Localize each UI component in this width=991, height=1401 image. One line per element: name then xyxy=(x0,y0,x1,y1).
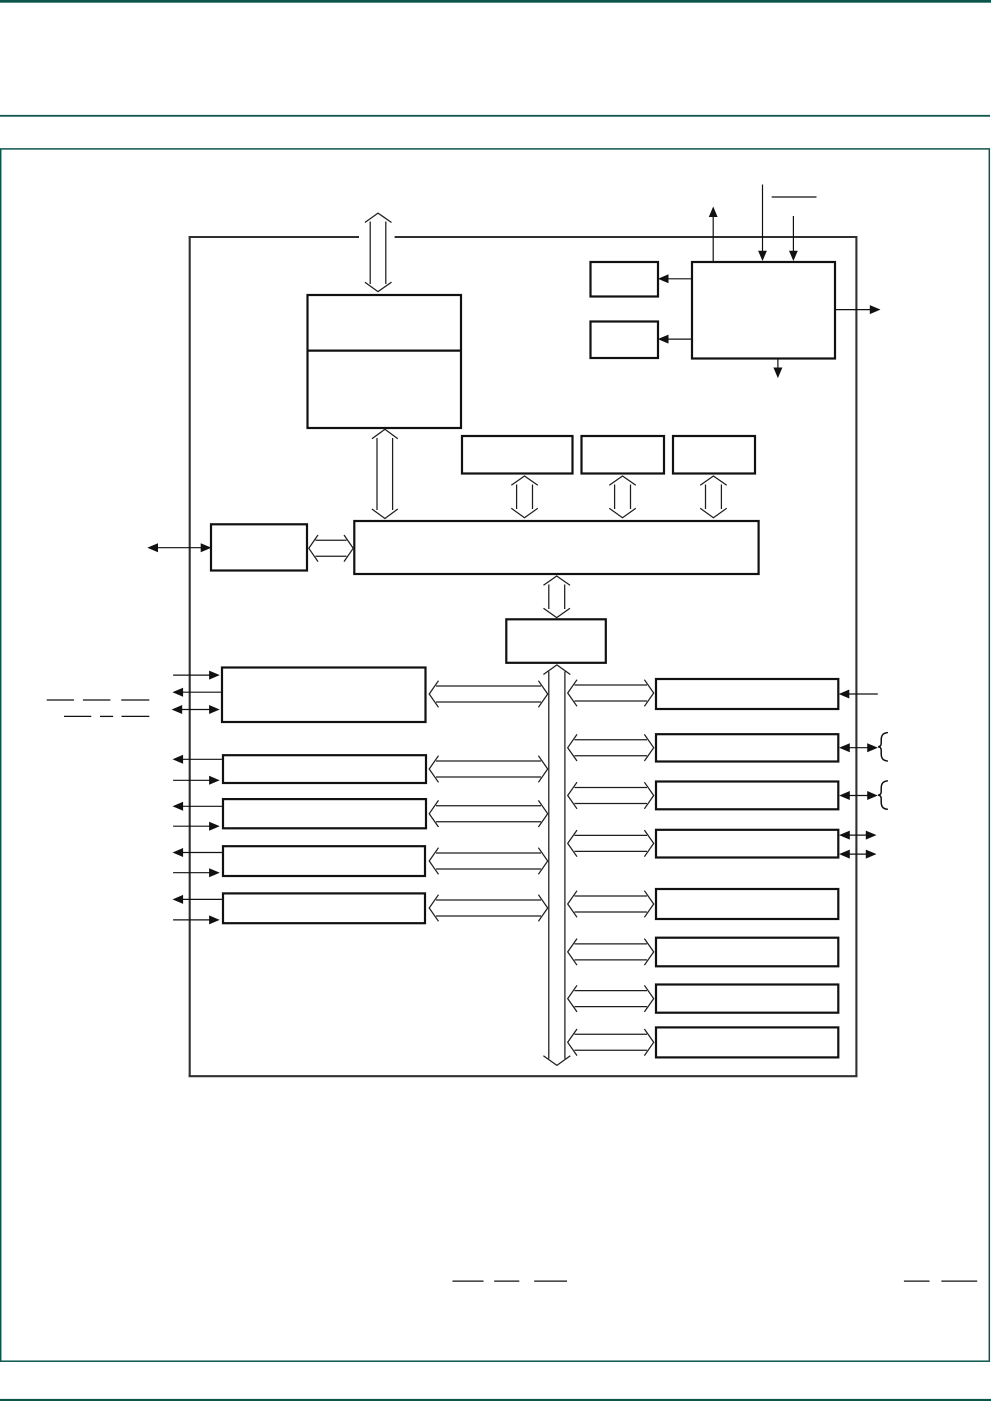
diagram outer box top border right segment xyxy=(395,236,858,238)
horizontal arrow bus to R4 xyxy=(568,830,654,857)
L3 arrow out xyxy=(174,803,223,810)
bottom page rule xyxy=(0,1399,991,1401)
block CPU (two-section) xyxy=(308,295,462,428)
L4 arrow out xyxy=(174,849,223,856)
block mid C xyxy=(673,436,755,474)
block left L5 xyxy=(223,893,425,923)
down arrow below oscillator xyxy=(774,359,781,377)
left overbar row 1 xyxy=(47,699,74,701)
R1 arrow in from right xyxy=(840,690,878,697)
block wide bus register xyxy=(354,521,758,574)
horizontal arrow port latch to bus register xyxy=(309,535,353,562)
horizontal arrow bus to R3 xyxy=(568,782,654,809)
horizontal arrow bus to R2 xyxy=(568,734,654,761)
horizontal arrow bus to R1 xyxy=(568,680,654,707)
block mid B xyxy=(582,436,665,474)
down arrow into oscillator (long, from top) xyxy=(759,185,766,260)
left arrow oscillator to small block 1 xyxy=(659,275,691,282)
vertical bus arrow V1 (top, crosses outer border) xyxy=(365,213,392,292)
L4 arrow in xyxy=(173,869,218,876)
block left L1 ports xyxy=(222,668,426,723)
bottom caption overbars right group xyxy=(904,1280,930,1282)
overline XTAL label xyxy=(772,196,817,198)
horizontal arrow bus to R6 xyxy=(568,939,654,966)
block program address register xyxy=(506,619,606,663)
THIN ARROWS WITH FILLED HEADS xyxy=(149,185,879,924)
L1 arrow in xyxy=(173,672,218,679)
vertical arrow below block A xyxy=(511,476,538,518)
diagram outer box left border xyxy=(189,236,191,1076)
up arrow from oscillator through top border xyxy=(710,208,717,261)
vertical arrow below block C xyxy=(700,476,727,518)
horizontal arrow bus to R5 xyxy=(568,891,654,918)
bottom caption overbars left group xyxy=(453,1280,484,1282)
horizontal arrow L1 to bus xyxy=(429,681,548,708)
block oscillator/timing xyxy=(692,262,835,359)
brace serial pins lower xyxy=(878,781,887,809)
L2 arrow in xyxy=(173,777,218,784)
external two-head arrow at port latch xyxy=(149,544,210,551)
block right R7 xyxy=(656,985,838,1013)
block mid A xyxy=(462,436,573,474)
diagram outer box top border left segment xyxy=(189,236,359,238)
horizontal arrow bus to R8 xyxy=(568,1029,654,1056)
OUTLINE DOUBLE ARROWS xyxy=(309,213,727,1065)
block left L2 xyxy=(223,755,426,783)
L2 arrow out xyxy=(174,756,223,763)
L3 arrow in xyxy=(173,823,218,830)
diagram outer box right border xyxy=(855,236,857,1076)
R3 bidir arrow xyxy=(841,792,877,799)
horizontal arrow L4 to bus xyxy=(429,848,548,875)
left arrow oscillator to small block 2 xyxy=(659,336,691,343)
left overbar row 2 xyxy=(64,715,91,717)
top header rule xyxy=(0,0,991,3)
central program bus (tall vertical arrow) xyxy=(543,665,570,1066)
L5 arrow out xyxy=(174,896,223,903)
diagram outer box bottom border xyxy=(189,1075,858,1077)
overline segments (stripped pin-name overbars) xyxy=(47,700,978,1281)
L5 arrow in xyxy=(173,916,218,923)
right arrow out of oscillator xyxy=(836,306,879,313)
R4 bidir arrow a xyxy=(841,832,875,839)
vertical bus arrow V2 (CPU to bus register) xyxy=(372,429,398,518)
block small top-right 2 xyxy=(591,322,659,359)
R2 bidir arrow xyxy=(841,744,877,751)
block right R2 xyxy=(656,734,838,761)
L1 arrow bidir xyxy=(173,706,218,713)
braces xyxy=(878,733,887,810)
block right R3 xyxy=(656,782,838,810)
block right R6 xyxy=(656,938,838,967)
vertical arrow bus register to program address register xyxy=(544,576,571,618)
horizontal arrow L3 to bus xyxy=(429,800,548,827)
horizontal arrow L5 to bus xyxy=(429,895,548,922)
block left L4 xyxy=(223,846,425,876)
R4 bidir arrow b xyxy=(841,851,875,858)
down arrow into oscillator (short) xyxy=(790,216,797,260)
vertical arrow below block B xyxy=(609,476,636,518)
block left L3 xyxy=(223,799,426,828)
block right R1 xyxy=(656,679,838,709)
L1 arrow out xyxy=(174,689,222,696)
block right R5 xyxy=(656,889,838,919)
sub-header rule xyxy=(0,115,990,117)
CPU divider xyxy=(308,350,462,352)
horizontal arrow bus to R7 xyxy=(568,985,654,1012)
block right R8 xyxy=(656,1027,838,1057)
block small top-right 1 xyxy=(591,262,659,297)
horizontal arrow L2 to bus xyxy=(429,756,548,783)
block left port latch xyxy=(211,524,307,570)
block right R4 xyxy=(656,830,838,858)
brace serial pins upper xyxy=(878,733,887,761)
